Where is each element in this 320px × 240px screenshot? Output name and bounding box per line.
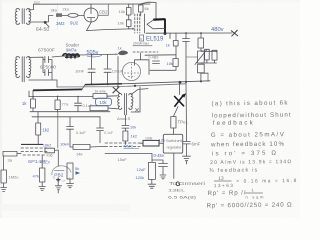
svg-text:PB2: PB2 <box>54 173 63 179</box>
wire heater vertical <box>98 4 108 15</box>
junction <box>117 86 119 88</box>
transformer T3 <box>118 93 133 114</box>
x mark rail end <box>231 30 238 36</box>
svg-text:9U2: 9U2 <box>70 21 79 26</box>
wire T2 bottom <box>29 80 57 87</box>
resistor 10k upper <box>126 8 131 16</box>
svg-text:regulator: regulator <box>167 145 183 150</box>
wire top rail from T1 to EL519 anode resistor <box>29 4 150 10</box>
resistor 10k lower <box>126 20 131 27</box>
svg-text:MMC: MMC <box>124 144 134 149</box>
paper shading left edge <box>0 0 2 218</box>
wire T3 right top <box>131 89 148 95</box>
x mark T3 input <box>113 87 120 94</box>
capacitor bank upper <box>43 56 52 62</box>
tube PB2 sketched arc <box>52 166 71 175</box>
driver tube circle <box>122 62 140 80</box>
svg-text:5k: 5k <box>75 166 79 171</box>
junction <box>132 28 134 30</box>
switched regulator box <box>163 134 182 153</box>
ground PB2 <box>55 186 61 193</box>
tube EL519 anode triangle <box>154 18 165 21</box>
junction dots <box>91 83 93 85</box>
wire driver left <box>117 57 119 87</box>
wire top to choke <box>52 56 63 57</box>
wire right loop down <box>207 73 209 81</box>
svg-text:480v: 480v <box>211 27 224 33</box>
driver tube internals <box>124 64 139 80</box>
parallel resistor loop <box>201 51 217 63</box>
wire left down <box>3 156 5 170</box>
resistor 1k vertical <box>32 97 34 99</box>
svg-text:(a) this is about 6k: (a) this is about 6k <box>211 100 288 108</box>
svg-text:Switched: Switched <box>166 138 182 143</box>
svg-text:10nF: 10nF <box>75 69 85 74</box>
transformer T1 <box>15 8 31 24</box>
svg-text:6k: 6k <box>145 6 149 11</box>
svg-text:1k2: 1k2 <box>131 134 138 139</box>
dashed pair to 2nd pentode <box>105 143 140 146</box>
cap above bracket <box>153 61 160 64</box>
wire regulator output <box>173 153 175 178</box>
svg-text:Rp' = Rp //: Rp' = Rp // <box>207 190 245 197</box>
svg-text:10k2: 10k2 <box>43 142 52 147</box>
svg-text:2ku: 2ku <box>63 7 69 12</box>
svg-text:when feedback 10%: when feedback 10% <box>210 141 285 149</box>
svg-text:1M2u: 1M2u <box>9 175 19 180</box>
cap to ground x163 <box>152 160 168 174</box>
svg-text:1k: 1k <box>166 44 170 48</box>
wire to fuse line <box>46 16 54 27</box>
choke L2 <box>63 54 79 58</box>
wire to resistor chain <box>175 33 177 40</box>
svg-text:20mA max: 20mA max <box>133 42 149 46</box>
coupling cap x100 <box>97 117 104 143</box>
capacitor 10nF <box>88 55 95 84</box>
cathode bracket <box>135 53 150 75</box>
label scribble underline <box>133 45 152 47</box>
svg-text:64-50: 64-50 <box>36 27 49 33</box>
svg-text:3ku: 3ku <box>51 8 57 13</box>
svg-text:67500F: 67500F <box>38 48 55 53</box>
junction <box>91 54 93 56</box>
fraction bar 2 <box>245 192 263 194</box>
svg-text:13Ei,: 13Ei, <box>168 188 185 193</box>
potentiometer VR1 <box>198 51 205 63</box>
resistor 12k lower <box>148 162 155 179</box>
PB2 top line <box>55 170 65 172</box>
wire to T3 <box>107 95 118 97</box>
inductor bead L1 <box>68 14 78 18</box>
wire lower grid line <box>105 153 152 162</box>
svg-text:0.1uF: 0.1uF <box>104 131 114 135</box>
fuse F1 <box>56 13 62 17</box>
paper shading bottom streak <box>0 204 130 211</box>
wire B+ down to lower stage <box>29 90 33 96</box>
svg-text:0.1uF: 0.1uF <box>76 131 86 135</box>
svg-text:k: k <box>140 37 142 41</box>
resistor PB2 grid <box>45 148 55 153</box>
blue callout box 10k <box>96 98 112 105</box>
bottom rail heavy <box>85 83 122 86</box>
wire 480V rail <box>146 32 232 34</box>
wire T1 secondary bottom <box>29 21 44 23</box>
fraction bar 1 <box>214 180 232 182</box>
svg-text:G = about 25mA/V: G = about 25mA/V <box>211 131 285 139</box>
cathode resistor x42 <box>41 156 43 169</box>
transformer T2 <box>15 57 31 82</box>
junction dots lower rail <box>32 96 34 98</box>
wire dashed grid feed <box>133 51 158 53</box>
svg-text:77a: 77a <box>62 102 69 107</box>
svg-text:3a: 3a <box>8 158 13 163</box>
cap 6mF <box>183 142 190 144</box>
wire stub <box>186 56 198 58</box>
resistor 5k x70 <box>67 163 73 179</box>
resistor 100k dark <box>143 140 159 146</box>
paper shading top edge <box>0 0 300 3</box>
tube EL519 grid dashes <box>135 14 140 33</box>
wire tube top to rail <box>90 4 92 8</box>
svg-text:Anod-S: Anod-S <box>117 116 131 121</box>
rail mid second <box>32 116 100 118</box>
wire X to resistor <box>173 83 179 117</box>
ground bus thick <box>33 88 82 91</box>
coupling cap x70 <box>67 117 74 147</box>
grid stopper resistor left <box>3 151 17 156</box>
resistor 10k right chain <box>173 59 178 67</box>
svg-text:Rp' = 6000//250 = 240 Ω: Rp' = 6000//250 = 240 Ω <box>207 202 292 210</box>
svg-text:1k: 1k <box>118 46 122 51</box>
wire pot chain top <box>200 33 202 38</box>
svg-text:Kd6: Kd6 <box>47 154 53 158</box>
junction blob <box>44 21 47 24</box>
tube EL519 cathode line <box>144 14 146 33</box>
wire fuse to inductor <box>62 15 68 17</box>
driver coupling component <box>118 51 128 56</box>
svg-text:14k: 14k <box>76 152 82 157</box>
capacitor below T3 <box>122 126 129 132</box>
wire 77a feed down <box>57 112 59 148</box>
resistor 1k2 <box>37 112 39 123</box>
svg-text:12uF: 12uF <box>137 167 147 172</box>
svg-text:47k: 47k <box>33 174 39 179</box>
ground left <box>1 183 7 191</box>
ground bars <box>183 156 191 164</box>
svg-text:10k: 10k <box>118 21 124 26</box>
svg-text:looped/without Shunt: looped/without Shunt <box>212 112 291 120</box>
wire T3 bottom <box>124 115 126 125</box>
ground x70 <box>67 179 74 188</box>
bold X feedback mark <box>175 96 184 107</box>
ground x163 <box>160 175 166 179</box>
resistor upper right chain <box>173 41 178 47</box>
resistor below pot <box>198 64 205 73</box>
pentode grid dashes <box>21 148 47 155</box>
svg-text:6.5 6A(8): 6.5 6A(8) <box>168 195 197 200</box>
bus step <box>82 85 85 90</box>
wire bead to tube <box>78 14 84 16</box>
svg-text:10k: 10k <box>119 9 125 14</box>
svg-text:TPe1: TPe1 <box>178 120 189 125</box>
resistor 77a vertical <box>57 97 59 101</box>
capacitor 120uF <box>104 54 111 84</box>
wire to T3 lower <box>108 107 118 110</box>
wire stub x170 <box>169 33 171 38</box>
wire choke to caps <box>79 53 118 56</box>
svg-text:100k: 100k <box>145 137 153 141</box>
wire resistor to regulator <box>172 128 174 134</box>
resistor below T3 <box>123 131 128 141</box>
svg-text:CB2: CB2 <box>99 10 108 15</box>
svg-text:6mF: 6mF <box>192 142 201 147</box>
resistor 1M left <box>1 170 6 183</box>
svg-text:15uF: 15uF <box>118 157 128 162</box>
small x at T3 bottom <box>136 109 139 112</box>
wire T3 right bottom <box>131 87 140 112</box>
wire cap to ground <box>186 144 188 156</box>
pentode plate line <box>21 143 43 145</box>
bottom rail second line <box>57 84 186 87</box>
resistor 7k <box>171 117 176 129</box>
svg-text:10k4: 10k4 <box>60 142 69 147</box>
ground x152 <box>148 179 156 188</box>
wire PB2 down <box>57 182 59 186</box>
svg-text:is ro' = 375 Ω: is ro' = 375 Ω <box>212 150 276 158</box>
resistor horizontal lower <box>90 106 108 111</box>
wire screen vertical <box>132 4 134 14</box>
bottom rail <box>122 81 210 84</box>
svg-text:0.4B9: 0.4B9 <box>149 56 159 60</box>
svg-text:10k: 10k <box>130 126 136 130</box>
svg-text:To Grmseri: To Grmseri <box>169 181 205 186</box>
svg-text:1k2: 1k2 <box>43 128 50 133</box>
svg-text:20 A/mV is 13.9k = 134Ω: 20 A/mV is 13.9k = 134Ω <box>210 159 291 166</box>
handwritten note line 1 <box>205 100 296 210</box>
bold plus mark <box>56 178 60 182</box>
tube pin box <box>140 35 144 41</box>
wire grid feed <box>145 54 176 56</box>
svg-text:1k wire: 1k wire <box>95 90 106 94</box>
svg-text:3M2: 3M2 <box>56 21 65 26</box>
svg-text:6P5000: 6P5000 <box>40 65 57 70</box>
svg-text:0-45v: 0-45v <box>154 153 165 158</box>
rail mid <box>30 111 110 113</box>
svg-text:9M7a: 9M7a <box>66 48 77 53</box>
rectifier tube V1 <box>84 8 98 22</box>
capacitor bank lower <box>43 60 52 80</box>
wire T2 top <box>29 56 43 58</box>
wire anode feed from rail <box>140 2 156 19</box>
capacitor 0.1uF vertical <box>75 97 82 112</box>
svg-text:120k: 120k <box>136 175 145 180</box>
rail lower stage top <box>29 95 93 97</box>
resistor 6k anode <box>138 5 143 12</box>
resistor above pot <box>198 38 204 48</box>
rail y147 with 14k resistor <box>70 146 73 148</box>
ground x42 <box>39 182 45 191</box>
svg-text:12k: 12k <box>159 138 165 143</box>
svg-text:10k: 10k <box>167 61 173 66</box>
paper fold faint line <box>57 3 59 30</box>
resistor horizontal top <box>93 94 107 99</box>
capacitor on dropper line <box>183 33 190 141</box>
svg-text:10k: 10k <box>100 100 108 105</box>
wire cathode to grid line <box>87 22 132 31</box>
